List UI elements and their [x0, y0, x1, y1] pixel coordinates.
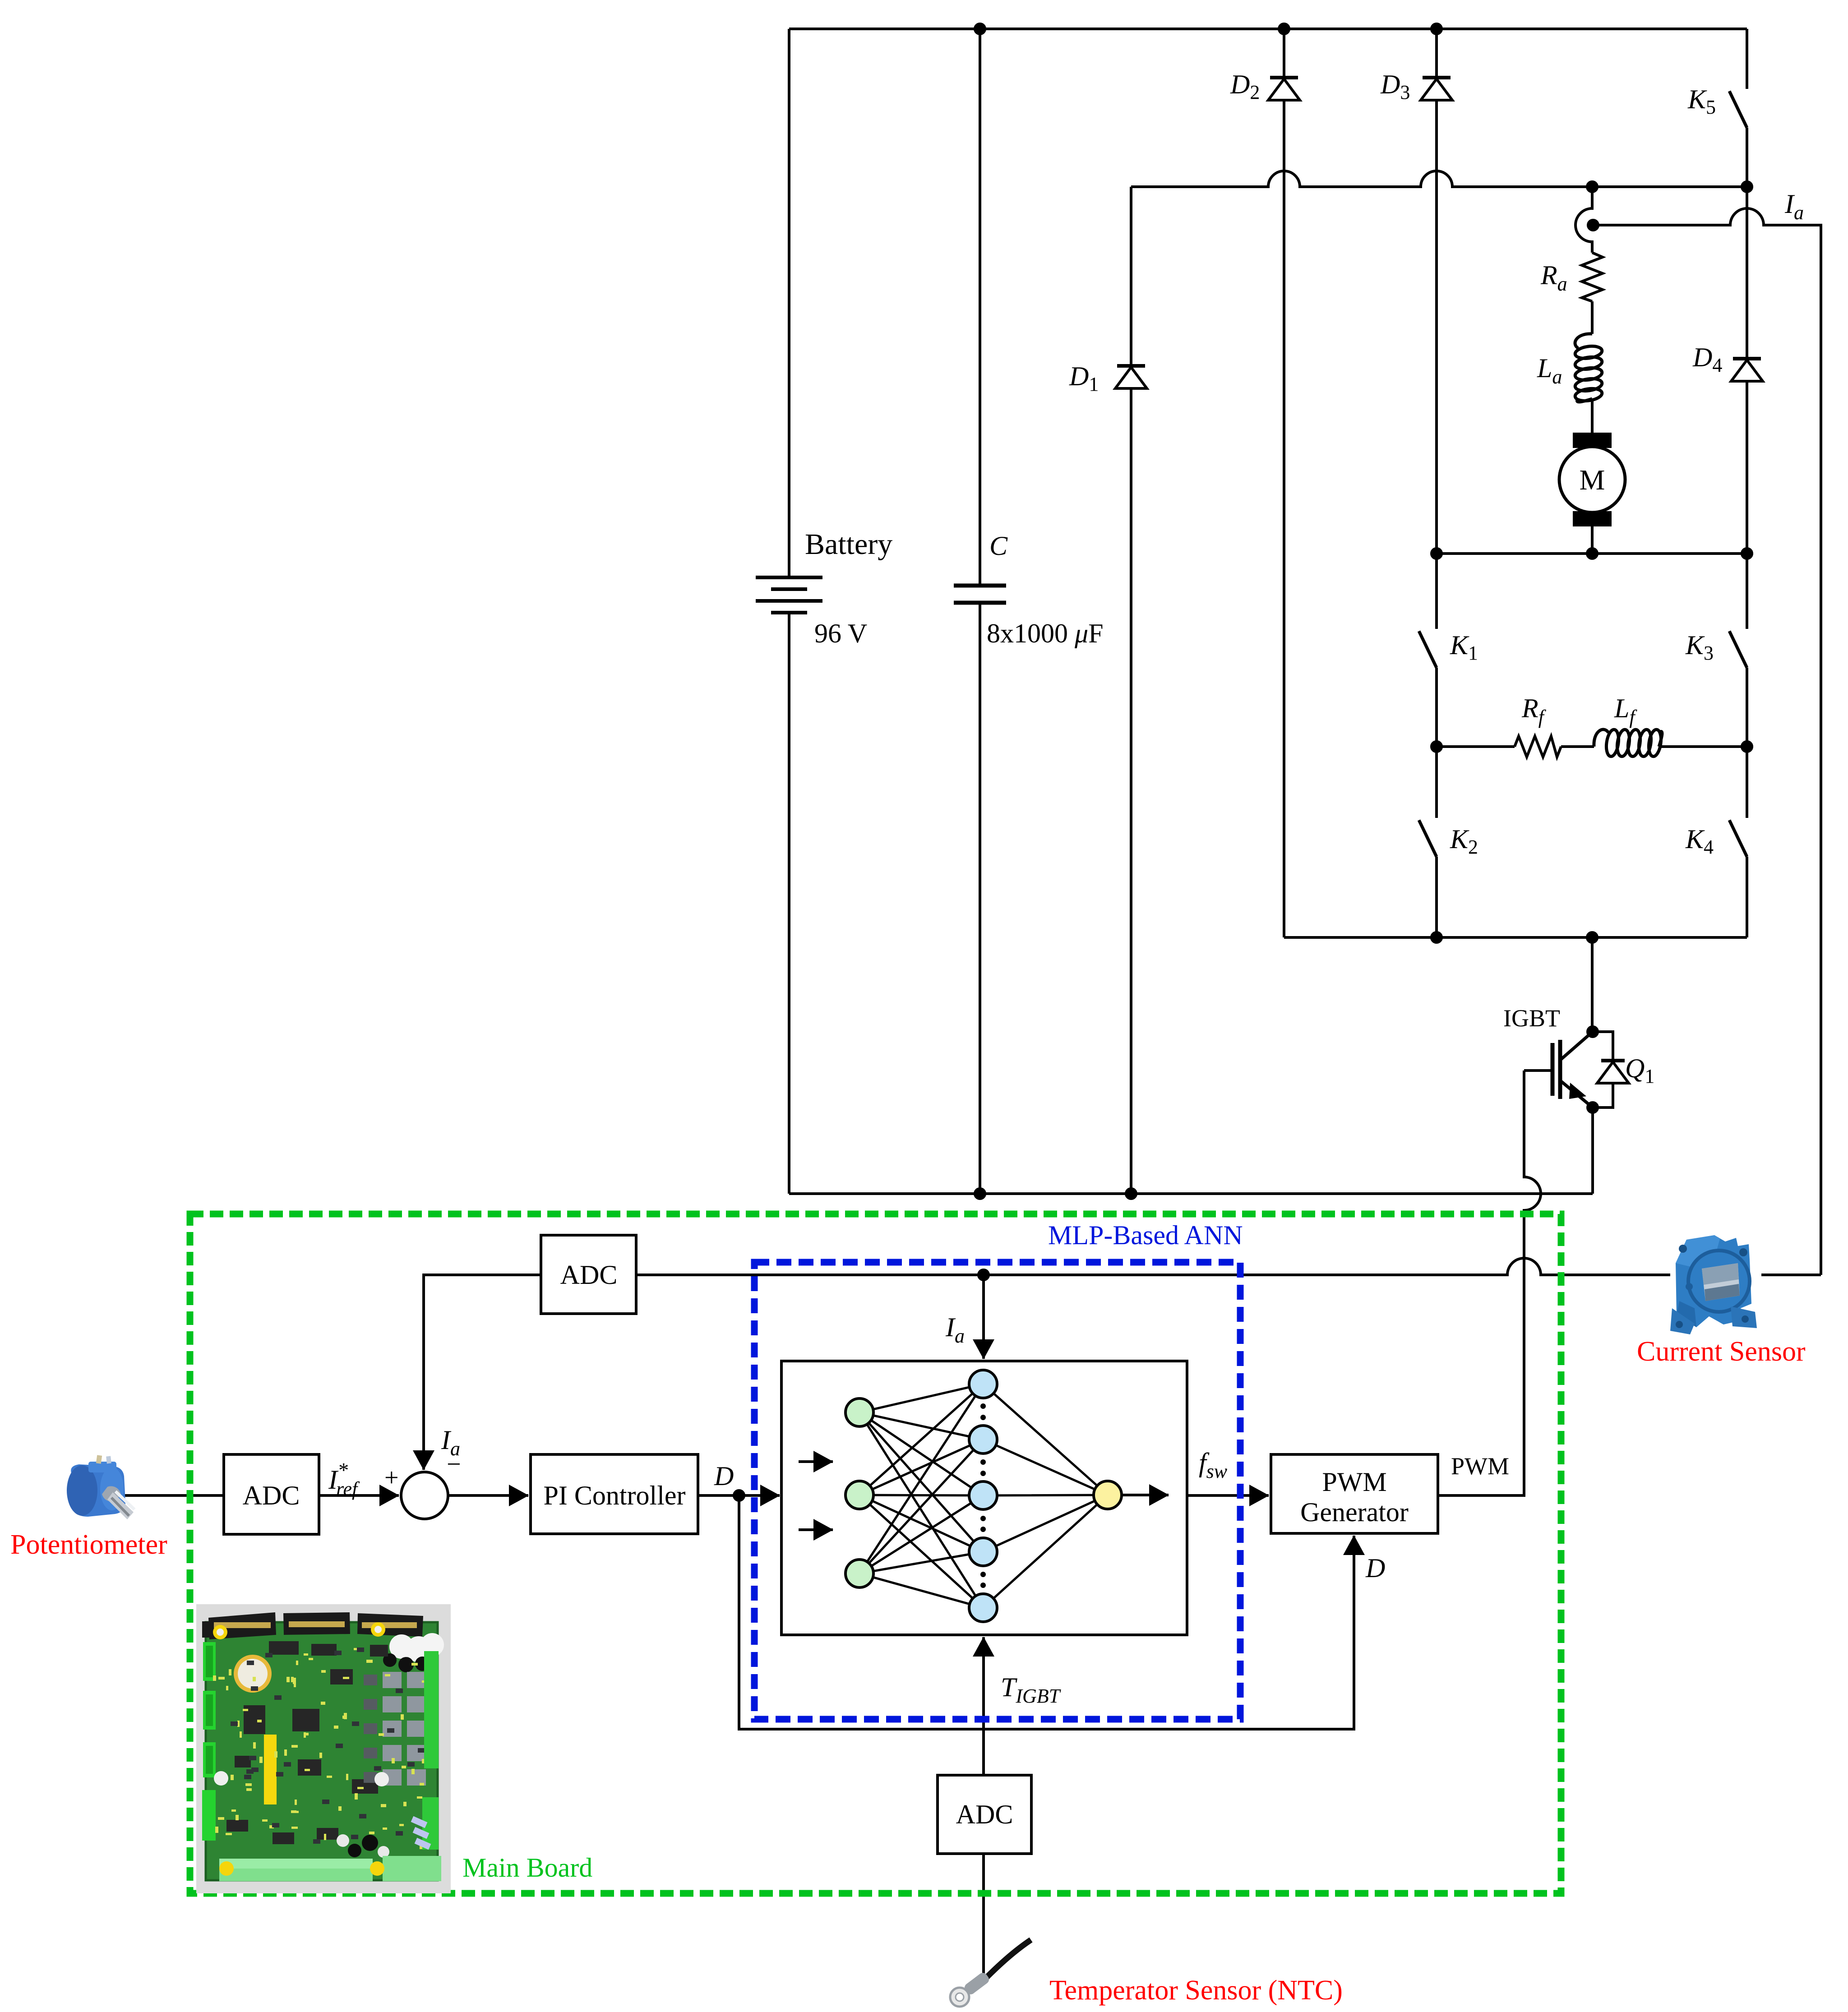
wire D feedback to PWM generator — [739, 1495, 1354, 1729]
block PWM Generator — [1271, 1454, 1438, 1533]
neuron hidden 4 — [969, 1538, 997, 1566]
box MLP-Based ANN blue dashed — [754, 1262, 1240, 1719]
bottom-left foot — [1670, 1308, 1695, 1334]
node motor bottom right (D4/K3) — [1742, 549, 1752, 558]
svg-text:D4: D4 — [1692, 342, 1722, 376]
node motor bottom left (K1 top) — [1432, 549, 1441, 558]
svg-text:D: D — [1365, 1553, 1385, 1583]
node bottom rail / D1 junction — [1126, 1189, 1136, 1199]
diode D3 (column x=3184) — [1435, 29, 1438, 78]
svg-text:PI Controller: PI Controller — [544, 1481, 686, 1510]
current sensor photo — [1670, 1230, 1761, 1334]
node motor bottom centre — [1587, 549, 1597, 558]
wire IGBT collector column — [1591, 937, 1594, 1032]
resistor Ra zigzag — [1582, 253, 1603, 301]
node top rail / capacitor C junction — [975, 24, 985, 34]
block PI Controller — [531, 1454, 698, 1534]
wire Ra branch from armature rail with hop around Ia tap — [1575, 187, 1592, 253]
wire capacitor column top lead — [979, 29, 981, 586]
svg-text:TIGBT: TIGBT — [1001, 1672, 1062, 1707]
block ANN box — [781, 1361, 1187, 1635]
switch K3 — [1746, 554, 1748, 629]
node field rail right junction — [1742, 742, 1752, 752]
svg-text:M: M — [1580, 464, 1605, 496]
neuron input 3 — [845, 1560, 873, 1587]
wire fsw ANN to PWM generator — [1187, 1494, 1269, 1497]
wire TIGBT input into ANN box — [982, 1637, 985, 1775]
node H-bridge bottom / IGBT junction — [1587, 932, 1597, 942]
wire D3 column down to motor bottom node — [1435, 100, 1438, 554]
dots hidden layer ellipsis — [980, 1403, 986, 1588]
neuron input 2 — [845, 1481, 873, 1509]
PCB main board photo — [196, 1604, 451, 1893]
wire armature top rail with hops over D2 and D3 — [1131, 171, 1747, 187]
node armature rail / Ra branch junction — [1587, 182, 1597, 192]
wire Ia sense wire to right column with hop over K column — [1593, 208, 1821, 1275]
svg-text:Temperator Sensor (NTC): Temperator Sensor (NTC) — [1049, 1975, 1343, 2006]
svg-text:Potentiometer: Potentiometer — [10, 1529, 167, 1560]
diode Q1 anti-parallel — [1593, 1032, 1613, 1061]
wire battery column top lead — [788, 29, 790, 577]
wire summing junction to PI controller — [448, 1494, 528, 1497]
svg-text:I*ref: I*ref — [328, 1458, 360, 1500]
svg-text:PWM: PWM — [1322, 1467, 1386, 1497]
node H-bridge bottom / K2 junction — [1432, 932, 1441, 942]
wire H-bridge bottom rail — [1284, 936, 1747, 939]
wire top rail (battery + to K5 column) — [789, 28, 1747, 30]
svg-text:Main Board: Main Board — [462, 1853, 592, 1883]
node current-sensor row / Ia branch junction — [979, 1270, 989, 1280]
wire ADC1 to summing junction — [319, 1494, 399, 1497]
wire Ia input into ANN box — [982, 1275, 985, 1359]
svg-text:K4: K4 — [1685, 824, 1714, 858]
neuron hidden 2 — [969, 1426, 997, 1454]
summing junction circle — [401, 1472, 448, 1519]
wire potentiometer to ADC1 — [123, 1494, 224, 1497]
svg-text:Ra: Ra — [1540, 260, 1567, 295]
svg-text:K5: K5 — [1687, 84, 1716, 118]
node Ia tap on Ra branch — [1588, 220, 1598, 230]
arrow output neuron — [1122, 1494, 1169, 1496]
block ADC1 (potentiometer) — [224, 1454, 319, 1534]
node armature rail / K5-D4 junction — [1742, 182, 1752, 192]
wire capacitor column bottom lead — [979, 603, 981, 1194]
neuron output — [1094, 1481, 1122, 1509]
screw hole mid-left — [1686, 1283, 1693, 1290]
wire bottom power rail with hop over gate line — [789, 1192, 1593, 1195]
battery Battery 96V plates — [756, 577, 822, 613]
svg-text:D: D — [714, 1461, 734, 1491]
neuron hidden 1 — [969, 1370, 997, 1398]
ANN connection lines blue to yellow — [983, 1384, 1108, 1608]
motor M brush top — [1574, 434, 1610, 447]
svg-text:Current Sensor: Current Sensor — [1637, 1336, 1806, 1367]
svg-text:D3: D3 — [1380, 69, 1410, 103]
box Main Board green dashed — [190, 1214, 1561, 1893]
bottom-right foot — [1731, 1306, 1757, 1328]
svg-text:MLP-Based ANN: MLP-Based ANN — [1048, 1220, 1243, 1250]
wire K5 to armature-rail node — [1746, 128, 1748, 187]
wire IGBT gate lead — [1524, 1069, 1552, 1072]
wire ADC3 to NTC sensor — [982, 1854, 985, 1976]
svg-text:8x1000 μF: 8x1000 μF — [987, 618, 1104, 648]
svg-text:D2: D2 — [1230, 69, 1260, 103]
ring — [1687, 1250, 1751, 1313]
node bottom rail / capacitor junction — [975, 1189, 985, 1199]
inductor Lf coil — [1594, 729, 1663, 757]
wire PWM-to-gate column — [1438, 1071, 1541, 1495]
wire ADC2 output down to summing junction — [424, 1275, 541, 1470]
capacitor C plates — [954, 586, 1006, 603]
inductor La coil — [1574, 334, 1603, 402]
diode D1 (column x=2507) — [1130, 187, 1132, 366]
svg-text:96 V: 96 V — [814, 618, 867, 648]
wire battery column bottom lead — [788, 613, 790, 1194]
svg-text:Q1: Q1 — [1625, 1053, 1654, 1087]
wire current-sensor row with hop over gate column — [636, 1258, 1821, 1275]
svg-text:K1: K1 — [1450, 630, 1478, 664]
ANN connection lines green to blue — [859, 1384, 1108, 1608]
neuron input 1 — [845, 1398, 873, 1426]
svg-text:PWM: PWM — [1451, 1453, 1509, 1480]
wire field winding rail left — [1437, 745, 1515, 748]
switch K1 — [1435, 554, 1438, 629]
wire K5 column top lead — [1746, 29, 1748, 89]
wire Lf to K3/K4 column — [1659, 745, 1747, 748]
svg-text:Lf: Lf — [1614, 693, 1637, 728]
diode D4 (column x=3872) — [1746, 187, 1748, 359]
wire motor to bottom node — [1591, 525, 1594, 554]
NTC temperature sensor photo — [950, 1940, 1031, 2007]
svg-text:Ia: Ia — [945, 1312, 965, 1347]
switch K5 blade — [1729, 91, 1747, 128]
svg-text:Generator: Generator — [1300, 1497, 1409, 1527]
potentiometer photo — [67, 1455, 134, 1519]
motor M brush bottom — [1574, 512, 1610, 525]
top-right tab — [1739, 1248, 1747, 1256]
svg-text:ADC: ADC — [243, 1481, 300, 1510]
svg-text:D1: D1 — [1069, 361, 1099, 395]
svg-text:ADC: ADC — [956, 1800, 1013, 1829]
svg-text:K2: K2 — [1450, 824, 1478, 858]
switch K4 — [1746, 747, 1748, 818]
wire motor bottom rail — [1437, 552, 1747, 555]
neuron hidden 3 — [969, 1481, 997, 1509]
svg-text:+: + — [384, 1464, 399, 1492]
neuron hidden 5 — [969, 1594, 997, 1622]
switch K2 — [1435, 747, 1438, 818]
wire Rf to Lf — [1561, 745, 1594, 748]
svg-text:Ia: Ia — [441, 1425, 460, 1460]
svg-text:IGBT: IGBT — [1503, 1005, 1560, 1032]
wire PI controller to ANN (D) — [698, 1494, 780, 1497]
node D branch junction — [734, 1491, 744, 1500]
block ADC3 (temperature) — [938, 1775, 1031, 1854]
svg-text:ADC: ADC — [560, 1260, 618, 1290]
node top rail / diode D3 junction — [1432, 24, 1441, 34]
diode D2 (column x=2846) — [1283, 29, 1285, 78]
wire La to motor — [1591, 399, 1594, 434]
transistor Q1 IGBT symbol — [1561, 1032, 1593, 1060]
node IGBT emitter — [1588, 1103, 1598, 1112]
wire IGBT emitter column down — [1591, 1108, 1594, 1194]
node top rail / diode D2 junction — [1279, 24, 1289, 34]
svg-text:Rf: Rf — [1521, 693, 1547, 728]
arrow ANN ghost input bottom — [799, 1528, 833, 1531]
svg-text:Ia: Ia — [1784, 189, 1804, 224]
svg-text:La: La — [1537, 353, 1562, 388]
svg-text:C: C — [989, 531, 1008, 561]
wire Ra to La — [1591, 301, 1594, 334]
motor M body — [1559, 447, 1625, 512]
arrow ANN ghost input top — [799, 1460, 833, 1463]
aperture — [1702, 1263, 1740, 1301]
node field rail left junction — [1432, 742, 1441, 752]
svg-text:K3: K3 — [1685, 630, 1714, 664]
svg-text:fsw: fsw — [1199, 1448, 1228, 1482]
svg-text:Battery: Battery — [805, 528, 892, 561]
main housing — [1676, 1235, 1751, 1327]
resistor Rf zigzag — [1515, 736, 1561, 757]
node IGBT collector — [1588, 1027, 1598, 1037]
block ADC2 (armature current) — [541, 1235, 636, 1314]
wire D2 column down to H-bridge bottom rail — [1283, 100, 1285, 937]
